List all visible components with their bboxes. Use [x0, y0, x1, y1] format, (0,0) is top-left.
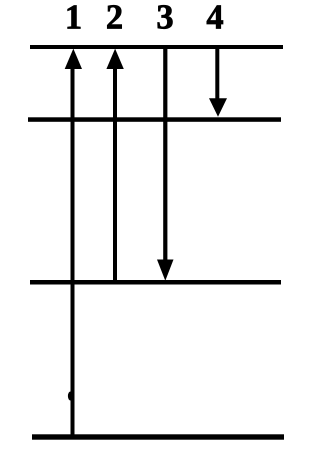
svg-text:2: 2	[106, 0, 123, 36]
svg-text:3: 3	[156, 0, 173, 36]
label 4	[206, 0, 223, 36]
label 3	[156, 0, 173, 36]
svg-text:1: 1	[65, 0, 82, 36]
label 2	[106, 0, 123, 36]
transition arrow 4 (down, top line to second line)	[209, 47, 227, 117]
transition arrow 2 (up, third line to top line)	[106, 49, 123, 283]
transition arrow 1 (up, bottom line to top line)	[65, 49, 82, 438]
energy level line E3 (second)	[28, 117, 281, 122]
transition arrow 3 (down, top line to third line)	[157, 47, 174, 281]
svg-text:4: 4	[206, 0, 223, 36]
energy level line E4 (top)	[30, 45, 283, 49]
energy level line E1 (bottom)	[32, 434, 284, 439]
label 1	[65, 0, 82, 36]
energy level line E2 (third)	[30, 280, 281, 285]
